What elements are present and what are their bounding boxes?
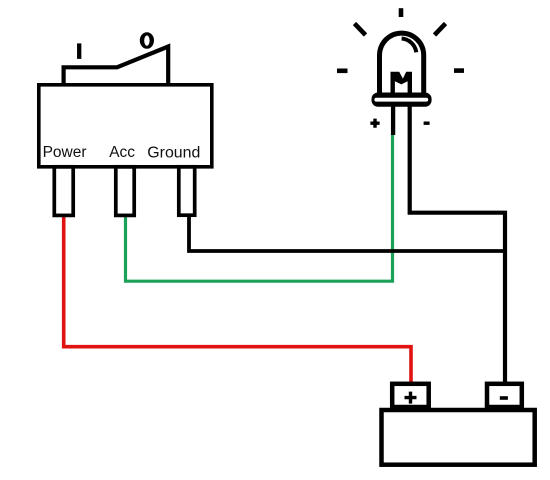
svg-text:Ground: Ground (147, 144, 200, 161)
LED ray upper-left (355, 24, 366, 36)
LED ray upper-right (435, 24, 446, 36)
LED D1 anode leg (black upper part) (391, 104, 395, 135)
LED ray top (399, 8, 404, 17)
wire black: Ground pin to right bus node (189, 214, 505, 251)
wire black: LED cathode leg to battery - terminal (410, 106, 505, 383)
svg-text:Power: Power (43, 144, 87, 161)
LED internal chip (M shape) (391, 72, 413, 93)
LED anode polarity + label (370, 119, 379, 128)
rocker switch SW1 body (39, 85, 212, 167)
wire red: Power pin to battery + terminal (64, 214, 411, 383)
switch pin Power (54, 167, 73, 216)
LED ray right (454, 68, 464, 73)
switch pin Acc (116, 167, 134, 216)
LED ray left (337, 69, 348, 74)
battery - terminal (487, 384, 522, 407)
wire green: Acc pin to LED anode leg (126, 134, 393, 281)
battery - terminal label (500, 396, 508, 400)
svg-text:Acc: Acc (109, 144, 135, 161)
switch lever (64, 47, 169, 86)
battery + terminal label (405, 392, 417, 404)
switch pin Ground (179, 167, 195, 215)
label I (on) (77, 43, 81, 59)
battery BT1 body (382, 410, 535, 465)
LED flange (372, 93, 432, 107)
LED dome highlight arc (402, 39, 417, 53)
LED D1 dome (380, 33, 424, 92)
battery + terminal (392, 384, 429, 407)
LED cathode polarity - label (424, 121, 430, 124)
label O (off) (140, 32, 154, 49)
